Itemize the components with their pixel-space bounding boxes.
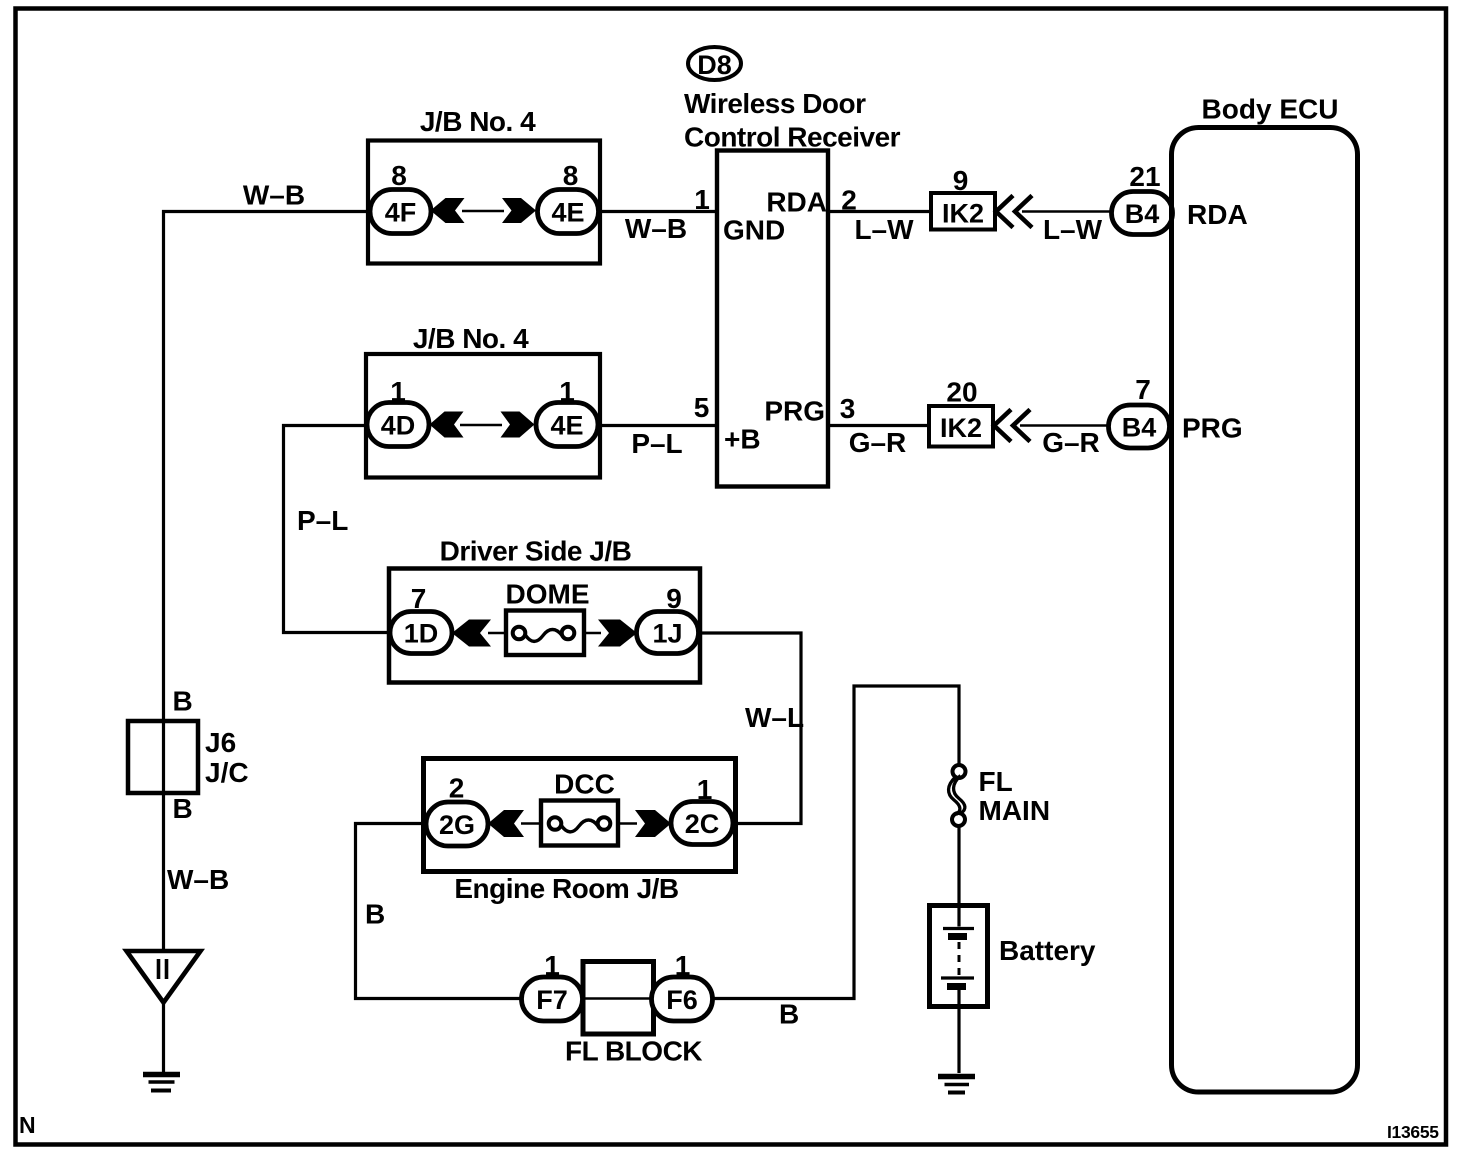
svg-text:P–L: P–L: [631, 428, 682, 459]
wire link 1D to DOME fuse: [488, 632, 508, 634]
svg-text:B: B: [779, 999, 799, 1030]
FL BLOCK: [565, 962, 702, 1067]
svg-text:Control Receiver: Control Receiver: [684, 122, 901, 153]
svg-text:FL BLOCK: FL BLOCK: [565, 1036, 702, 1067]
arrow left (J/B No.4 lower): [430, 412, 464, 438]
connector 1J pin 9: [637, 583, 699, 654]
svg-text:P–L: P–L: [297, 505, 348, 536]
svg-text:3: 3: [840, 393, 856, 424]
svg-text:8: 8: [563, 160, 579, 191]
svg-text:RDA: RDA: [1187, 199, 1248, 230]
svg-text:8: 8: [391, 160, 407, 191]
svg-text:DOME: DOME: [506, 579, 590, 610]
wire noise filter to ground: [162, 1004, 165, 1073]
svg-text:W–B: W–B: [243, 180, 305, 211]
connector 4E pin 1 (lower): [536, 376, 598, 447]
svg-text:I13655: I13655: [1387, 1122, 1439, 1142]
svg-text:7: 7: [1135, 374, 1151, 405]
arrow left (Engine Room J/B): [488, 810, 524, 837]
svg-text:F7: F7: [536, 985, 568, 1015]
junction connector IK2 pin 9: [931, 165, 995, 230]
svg-text:1J: 1J: [652, 619, 682, 649]
svg-text:4F: 4F: [385, 198, 417, 228]
connector 2C pin 1: [671, 774, 733, 845]
wire B 2G to F7: [356, 824, 525, 999]
svg-text:J/C: J/C: [205, 757, 249, 788]
svg-text:L–W: L–W: [854, 214, 914, 245]
Body ECU: [1172, 94, 1358, 1093]
wire G-R receiver PRG to IK2: [827, 424, 931, 427]
svg-text:Engine Room J/B: Engine Room J/B: [454, 873, 678, 904]
svg-text:1: 1: [559, 376, 575, 407]
svg-text:B: B: [173, 686, 193, 717]
wire link DOME fuse to 1J: [582, 632, 601, 634]
svg-text:IK2: IK2: [942, 199, 984, 229]
wire W-B left rail from 4F to noise filter: [164, 212, 369, 951]
svg-text:Battery: Battery: [999, 935, 1096, 966]
svg-text:PRG: PRG: [1182, 413, 1243, 444]
chevrons (IK2 lower): [994, 410, 1030, 442]
chevrons (IK2 upper): [996, 196, 1032, 228]
wireless door control receiver D8: [684, 88, 901, 487]
svg-text:20: 20: [946, 377, 977, 408]
connector F7 pin 1: [522, 950, 583, 1021]
svg-text:J/B No. 4: J/B No. 4: [420, 106, 536, 137]
connector 4F pin 8: [370, 160, 431, 234]
svg-text:B4: B4: [1125, 199, 1160, 229]
svg-text:N: N: [19, 1112, 36, 1138]
arrow right (J/B No.4 upper): [502, 198, 536, 223]
connector 1D pin 7: [390, 583, 452, 654]
svg-text:RDA: RDA: [766, 187, 827, 218]
arrow left (J/B No.4 upper): [431, 198, 465, 223]
svg-text:Driver Side J/B: Driver Side J/B: [440, 536, 632, 567]
svg-text:2: 2: [841, 185, 857, 216]
wire link 4D to 4E inside J/B: [460, 424, 502, 426]
svg-text:DCC: DCC: [554, 769, 615, 800]
svg-text:4E: 4E: [551, 198, 584, 228]
wire W-L 1J to 2C: [697, 633, 801, 824]
connector D8: [688, 47, 741, 80]
arrow right (J/B No.4 lower): [501, 412, 535, 438]
svg-text:1: 1: [544, 950, 560, 981]
svg-text:G–R: G–R: [849, 427, 907, 458]
svg-text:1D: 1D: [404, 619, 439, 649]
fuse DOME: [506, 579, 590, 656]
svg-text:1: 1: [697, 774, 713, 805]
fusible link FL MAIN: [949, 765, 1050, 826]
connector 4E pin 8 (upper): [538, 160, 599, 234]
junction block J/B No. 4 (upper): [368, 106, 600, 264]
svg-text:W–L: W–L: [745, 702, 804, 733]
wire G-R IK2 chevrons to B4: [1020, 424, 1110, 426]
svg-text:1: 1: [694, 184, 710, 215]
svg-text:2C: 2C: [685, 809, 720, 839]
svg-text:B: B: [365, 899, 385, 930]
svg-text:D8: D8: [697, 50, 732, 80]
battery: [930, 905, 1096, 1007]
wire P-L rail 4D to 1D: [284, 426, 393, 633]
arrow right (Driver Side J/B): [598, 620, 637, 647]
ground (left): [143, 1075, 180, 1091]
svg-text:21: 21: [1129, 161, 1160, 192]
svg-text:4D: 4D: [381, 411, 416, 441]
wire L-W IK2 chevrons to B4: [1022, 210, 1113, 212]
svg-text:F6: F6: [666, 985, 698, 1015]
ground (battery): [938, 1077, 975, 1093]
svg-text:J6: J6: [205, 727, 236, 758]
wire FL MAIN to battery: [957, 826, 960, 906]
junction block J/B No. 4 (lower): [366, 323, 600, 478]
junction connector IK2 pin 20: [929, 377, 993, 447]
svg-text:B: B: [173, 793, 193, 824]
svg-text:5: 5: [694, 392, 710, 423]
wire L-W receiver RDA to IK2: [827, 210, 933, 213]
wire battery to ground: [957, 1005, 960, 1073]
svg-text:+B: +B: [724, 424, 761, 455]
svg-text:2: 2: [449, 773, 465, 804]
noise filter II: [127, 951, 201, 1003]
connector 4D pin 1: [367, 376, 429, 447]
wire link 4F to 4E inside J/B: [462, 210, 504, 212]
wire link 2G to DCC fuse: [521, 822, 543, 824]
arrow right (Engine Room J/B): [635, 810, 671, 837]
svg-text:Wireless Door: Wireless Door: [684, 88, 866, 119]
svg-text:G–R: G–R: [1042, 427, 1100, 458]
svg-text:L–W: L–W: [1043, 214, 1103, 245]
connector 2G pin 2: [426, 773, 488, 847]
wire W-B 4E to receiver GND: [598, 210, 718, 213]
svg-text:1: 1: [390, 376, 406, 407]
wire B F6 to FL MAIN branch: [711, 686, 959, 999]
svg-text:2G: 2G: [439, 810, 475, 840]
wire link DCC fuse to 2C: [616, 822, 637, 824]
svg-text:FL: FL: [979, 766, 1013, 797]
svg-text:IK2: IK2: [940, 413, 982, 443]
junction block Driver Side J/B: [389, 536, 700, 683]
svg-text:B4: B4: [1122, 413, 1157, 443]
svg-text:9: 9: [666, 583, 682, 614]
arrow left (Driver Side J/B): [452, 620, 491, 647]
wire P-L 4E to receiver +B: [598, 424, 718, 427]
svg-text:W–B: W–B: [167, 864, 229, 895]
svg-text:4E: 4E: [550, 411, 583, 441]
svg-text:1: 1: [675, 950, 691, 981]
svg-text:Body ECU: Body ECU: [1202, 94, 1339, 125]
junction/connector J6 J/C: [128, 721, 249, 793]
connector B4 pin 21 (RDA): [1112, 161, 1173, 235]
connector B4 pin 7 (PRG): [1109, 374, 1170, 448]
svg-text:9: 9: [953, 165, 969, 196]
svg-text:GND: GND: [723, 215, 785, 246]
svg-text:MAIN: MAIN: [979, 795, 1051, 826]
fuse DCC: [541, 769, 618, 846]
svg-text:W–B: W–B: [625, 213, 687, 244]
svg-text:7: 7: [411, 583, 427, 614]
junction block Engine Room J/B: [424, 759, 736, 905]
svg-text:J/B No. 4: J/B No. 4: [413, 323, 529, 354]
svg-text:PRG: PRG: [764, 396, 825, 427]
connector F6 pin 1: [652, 950, 713, 1021]
